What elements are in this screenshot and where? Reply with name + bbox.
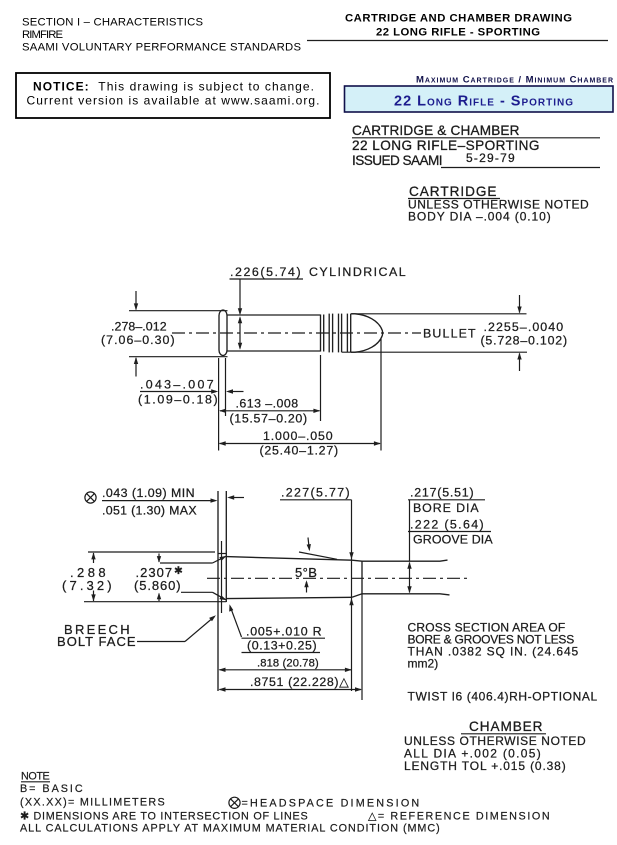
chamber centerline [207,577,468,579]
svg-text:.227(5.77): .227(5.77) [281,486,350,500]
chamber bottom line [226,597,352,598]
extension line throat end [361,594,363,700]
svg-text:✱ DIMENSIONS ARE TO INTERSECTI: ✱ DIMENSIONS ARE TO INTERSECTION OF LINE… [20,811,308,823]
svg-text:SECTION I – CHARACTERISTICS: SECTION I – CHARACTERISTICS [22,17,203,29]
svg-text:GROOVE DIA: GROOVE DIA [413,533,493,547]
svg-text:CARTRIDGE AND CHAMBER DRAWING: CARTRIDGE AND CHAMBER DRAWING [345,13,572,25]
dim .278 text [101,320,175,348]
cartridge notes block [408,184,589,224]
bore top line [352,560,448,561]
dim .2307 body dia [134,554,227,602]
svg-text:LENGTH TOL +.015 (0.38): LENGTH TOL +.015 (0.38) [404,759,566,773]
svg-text:(1.09–0.18): (1.09–0.18) [138,393,218,407]
svg-text:22 LONG RIFLE - SPORTING: 22 LONG RIFLE - SPORTING [376,27,540,39]
svg-text:(5.860): (5.860) [134,578,181,593]
chamber mouth step [361,561,363,594]
dim .217 bore dia label [408,486,485,532]
dim .227 chamber mouth dia [280,486,354,692]
svg-text:.005+.010 R: .005+.010 R [246,625,322,639]
rim diameter extension lines [129,310,228,312]
svg-text:(XX.XX)= MILLIMETERS: (XX.XX)= MILLIMETERS [20,797,165,809]
dim .226 internal double arrow [238,316,242,350]
svg-text:.818 (20.78): .818 (20.78) [257,658,319,670]
svg-text:.278–.012: .278–.012 [111,320,167,334]
title box: 22 long rifle sporting [345,86,614,112]
header left: section titles [22,17,301,54]
breech bolt face label [57,615,216,649]
extension line bullet tip [380,339,382,451]
svg-text:5-29-79: 5-29-79 [466,151,515,165]
dim .8751 [219,675,363,692]
svg-text:.043–.007: .043–.007 [140,378,214,392]
dim .226 cylindrical label [230,265,407,279]
cross section note [408,621,579,671]
svg-text:CYLINDRICAL: CYLINDRICAL [309,265,406,279]
svg-text:.217(5.51): .217(5.51) [410,486,474,500]
rim recess top edge [218,553,226,555]
bullet ogive [351,314,383,352]
svg-text:RIMFIRE: RIMFIRE [22,29,63,41]
chamber rear face line [225,491,227,602]
svg-text:1.000–.050: 1.000–.050 [263,429,333,443]
svg-text:(25.40–1.27): (25.40–1.27) [260,444,339,458]
case mouth [321,315,324,352]
svg-text:TWIST I6 (406.4)RH-OPTIONAL: TWIST I6 (406.4)RH-OPTIONAL [408,690,598,704]
header rule [307,40,608,42]
svg-text:22 Long Rifle - Sporting: 22 Long Rifle - Sporting [394,94,573,110]
svg-text:(0.13+0.25): (0.13+0.25) [247,639,317,653]
bullet crimp grooves [329,314,351,353]
drawing title block [352,123,600,168]
dim .818 [219,658,352,673]
bullet dia arrows [517,295,521,371]
svg-text:CARTRIDGE & CHAMBER: CARTRIDGE & CHAMBER [352,123,520,138]
svg-text:.2255–.0040: .2255–.0040 [484,320,564,334]
chamber top line [226,557,352,561]
svg-text:(7.06–0.30): (7.06–0.30) [101,333,175,347]
svg-text:BOLT FACE: BOLT FACE [57,634,136,649]
svg-text:SAAMI VOLUNTARY PERFORMANCE ST: SAAMI VOLUNTARY PERFORMANCE STANDARDS [22,42,301,54]
svg-text:(15.57–0.20): (15.57–0.20) [230,412,308,426]
svg-text:Maximum Cartridge / Minimum Ch: Maximum Cartridge / Minimum Chamber [416,75,613,86]
bore dia dimension arrows [407,532,411,594]
headspace symbol [85,492,96,503]
svg-text:NOTICE: This drawing is subje: NOTICE: This drawing is subject to chang… [33,80,314,94]
svg-text:BODY DIA –.004 (0.10): BODY DIA –.004 (0.10) [408,210,551,224]
svg-text:5°B: 5°B [295,565,317,580]
breech bolt face line [217,491,219,691]
chamber notes block [404,719,586,773]
svg-text:△= REFERENCE DIMENSION: △= REFERENCE DIMENSION [368,811,550,823]
svg-text:BULLET: BULLET [423,327,476,341]
svg-text:.8751 (22.228)△: .8751 (22.228)△ [250,675,349,689]
svg-text:.043 (1.09) MIN: .043 (1.09) MIN [102,486,195,500]
svg-text:(5.728–0.102): (5.728–0.102) [481,334,568,348]
svg-text:.613 –.008: .613 –.008 [236,397,299,411]
svg-text:(7.32): (7.32) [62,578,112,593]
dim .043/.051 headspace [102,486,244,518]
svg-text:CHAMBER: CHAMBER [469,719,543,734]
bore bottom line [352,594,450,598]
svg-text:.222 (5.64): .222 (5.64) [410,518,484,532]
dim 1.000 overall length [219,429,381,458]
header right: document title [345,13,572,39]
radius callout [229,604,325,652]
svg-text:BORE DIA: BORE DIA [413,501,479,515]
svg-text:mm2): mm2) [408,657,439,671]
bullet diameter extension lines [352,313,527,315]
dim .043 rim thickness [138,378,244,407]
note block [20,771,550,835]
svg-text:✱: ✱ [174,565,183,577]
svg-text:NOTE: NOTE [21,771,50,783]
dim .222 groove dia label [408,518,493,547]
svg-text:.051 (1.30) MAX: .051 (1.30) MAX [102,504,197,518]
extension line case mouth [320,355,322,421]
case body [227,315,321,351]
dim .278 arrows [134,291,138,377]
5 degree taper reference [295,538,337,593]
dim .226 leader arrow [238,279,242,315]
svg-text:.226(5.74): .226(5.74) [230,265,301,279]
bullet label and dim [423,320,568,348]
cartridge centerline [172,332,421,334]
extension line rim front [225,358,227,416]
notice box [16,73,330,118]
rim recess min line [221,541,223,613]
svg-text:ISSUED SAAMI: ISSUED SAAMI [352,153,443,168]
extension line rim back [218,358,220,451]
dim .613 case length [219,397,320,426]
dim .288 rim recess dia [62,552,226,602]
svg-text:ALL CALCULATIONS APPLY AT MAXI: ALL CALCULATIONS APPLY AT MAXIMUM MATERI… [20,823,440,835]
cartridge rim [219,310,227,356]
